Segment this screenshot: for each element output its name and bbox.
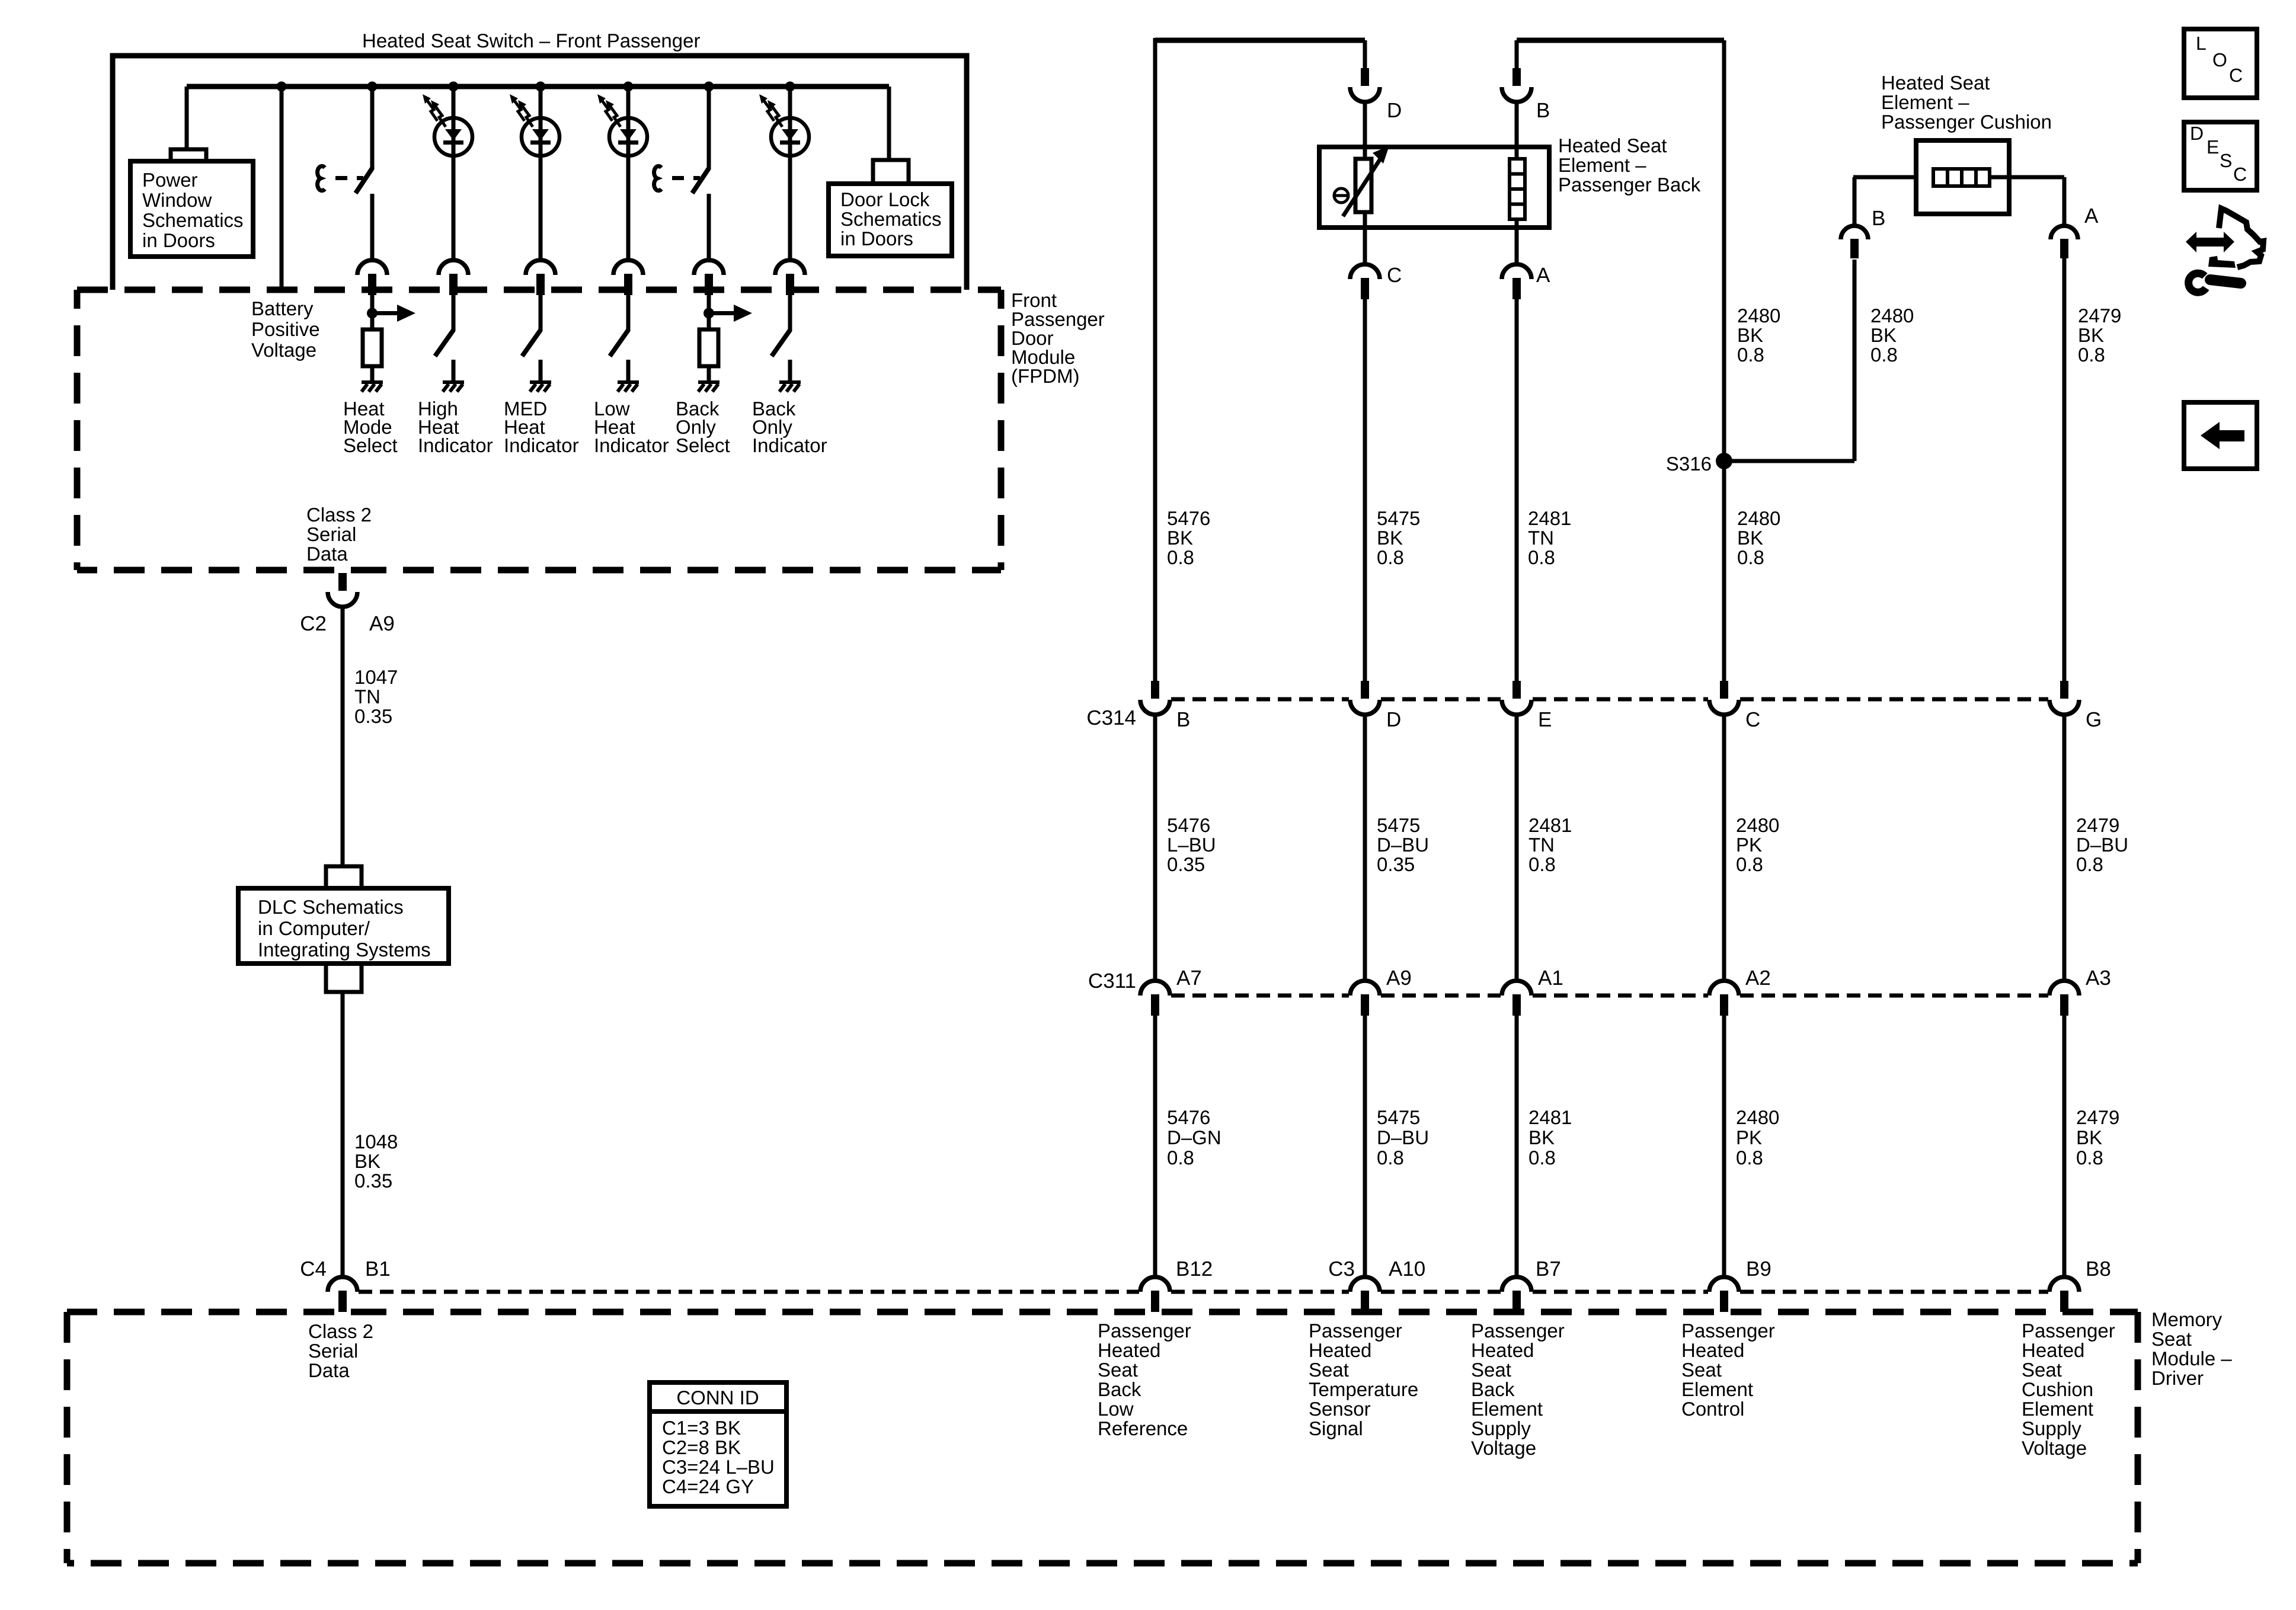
svg-text:Heated: Heated xyxy=(1309,1339,1371,1361)
svg-text:0.8: 0.8 xyxy=(1528,853,1556,875)
svg-text:0.35: 0.35 xyxy=(354,705,392,727)
svg-text:Indicator: Indicator xyxy=(504,434,579,456)
svg-text:Class 2: Class 2 xyxy=(306,504,372,526)
svg-text:D–BU: D–BU xyxy=(2076,834,2128,856)
svg-text:Schematics: Schematics xyxy=(840,208,942,230)
svg-text:2480: 2480 xyxy=(1737,507,1780,529)
svg-text:PK: PK xyxy=(1736,1126,1762,1148)
svg-text:0.8: 0.8 xyxy=(1528,546,1555,568)
svg-text:Seat: Seat xyxy=(2151,1328,2192,1350)
svg-text:A: A xyxy=(1536,264,1550,287)
svg-text:Passenger: Passenger xyxy=(1098,1320,1191,1342)
svg-text:A9: A9 xyxy=(369,612,395,635)
svg-text:BK: BK xyxy=(354,1150,380,1172)
svg-text:B7: B7 xyxy=(1536,1257,1561,1281)
svg-text:BK: BK xyxy=(1870,324,1897,346)
svg-text:0.35: 0.35 xyxy=(354,1170,392,1192)
svg-text:0.35: 0.35 xyxy=(1377,853,1415,875)
svg-text:C3: C3 xyxy=(1328,1257,1355,1281)
svg-text:B8: B8 xyxy=(2086,1257,2111,1281)
svg-text:Passenger: Passenger xyxy=(2022,1320,2115,1342)
svg-text:Cushion: Cushion xyxy=(2022,1378,2093,1400)
svg-text:Window: Window xyxy=(142,189,212,211)
svg-text:TN: TN xyxy=(1528,834,1555,856)
svg-text:C: C xyxy=(2233,164,2247,185)
svg-text:A3: A3 xyxy=(2086,966,2111,990)
svg-text:5476: 5476 xyxy=(1167,507,1210,529)
svg-text:2480: 2480 xyxy=(1737,305,1780,327)
svg-text:C3=24 L–BU: C3=24 L–BU xyxy=(662,1456,775,1478)
svg-text:C: C xyxy=(1387,264,1402,287)
svg-text:Data: Data xyxy=(306,543,348,565)
svg-text:1047: 1047 xyxy=(354,666,398,688)
svg-text:Heated: Heated xyxy=(1681,1339,1744,1361)
svg-text:C: C xyxy=(1745,708,1760,731)
svg-text:2481: 2481 xyxy=(1528,1106,1572,1128)
svg-text:Indicator: Indicator xyxy=(594,434,669,456)
svg-text:D–BU: D–BU xyxy=(1377,834,1429,856)
svg-text:2480: 2480 xyxy=(1736,1106,1779,1128)
svg-text:Indicator: Indicator xyxy=(752,434,827,456)
svg-text:Passenger: Passenger xyxy=(1309,1320,1402,1342)
svg-text:O: O xyxy=(2212,49,2227,71)
svg-text:S316: S316 xyxy=(1666,453,1712,475)
svg-text:Select: Select xyxy=(676,434,730,456)
svg-text:A9: A9 xyxy=(1386,966,1412,990)
svg-text:Select: Select xyxy=(343,434,398,456)
svg-text:BK: BK xyxy=(1377,527,1403,549)
svg-text:Heated: Heated xyxy=(1471,1339,1534,1361)
svg-text:Supply: Supply xyxy=(2022,1417,2081,1439)
svg-text:Class 2: Class 2 xyxy=(308,1320,373,1342)
svg-text:BK: BK xyxy=(1737,527,1763,549)
svg-text:DLC Schematics: DLC Schematics xyxy=(258,896,404,918)
svg-text:Heated Seat: Heated Seat xyxy=(1881,72,1990,94)
svg-text:5475: 5475 xyxy=(1377,814,1420,836)
svg-text:Passenger Cushion: Passenger Cushion xyxy=(1881,111,2052,133)
svg-text:BK: BK xyxy=(2076,1126,2102,1148)
svg-text:Driver: Driver xyxy=(2151,1367,2204,1389)
svg-text:Memory: Memory xyxy=(2151,1308,2223,1330)
svg-text:B9: B9 xyxy=(1746,1257,1771,1281)
svg-text:Seat: Seat xyxy=(2022,1359,2062,1381)
svg-text:Heated: Heated xyxy=(2022,1339,2084,1361)
svg-text:Schematics: Schematics xyxy=(142,209,244,231)
svg-text:L: L xyxy=(2196,33,2207,54)
svg-text:Door Lock: Door Lock xyxy=(840,188,930,210)
svg-text:E: E xyxy=(2207,136,2219,158)
svg-text:Seat: Seat xyxy=(1098,1359,1138,1381)
svg-text:2479: 2479 xyxy=(2076,1106,2119,1128)
svg-text:5476: 5476 xyxy=(1167,814,1210,836)
svg-text:0.8: 0.8 xyxy=(1737,546,1764,568)
svg-text:0.8: 0.8 xyxy=(1377,1147,1404,1169)
svg-text:Seat: Seat xyxy=(1471,1359,1511,1381)
svg-text:Passenger: Passenger xyxy=(1471,1320,1565,1342)
svg-text:Serial: Serial xyxy=(308,1340,358,1362)
svg-text:TN: TN xyxy=(354,686,380,708)
svg-text:Power: Power xyxy=(142,169,198,191)
svg-text:D–GN: D–GN xyxy=(1167,1126,1221,1148)
svg-text:PK: PK xyxy=(1736,834,1762,856)
svg-text:Element –: Element – xyxy=(1558,154,1646,176)
svg-text:0.8: 0.8 xyxy=(1737,344,1764,366)
svg-text:5475: 5475 xyxy=(1377,507,1420,529)
svg-text:D: D xyxy=(2190,123,2204,144)
svg-text:0.8: 0.8 xyxy=(1377,546,1404,568)
svg-text:S: S xyxy=(2220,150,2232,171)
svg-text:B: B xyxy=(1536,99,1550,122)
svg-text:C4=24 GY: C4=24 GY xyxy=(662,1475,754,1497)
svg-text:Battery: Battery xyxy=(251,297,314,319)
svg-text:Control: Control xyxy=(1681,1398,1744,1420)
svg-text:C2: C2 xyxy=(300,612,327,635)
svg-text:Indicator: Indicator xyxy=(418,434,493,456)
svg-text:Element: Element xyxy=(1471,1398,1543,1420)
svg-text:C2=8 BK: C2=8 BK xyxy=(662,1436,741,1458)
svg-text:Voltage: Voltage xyxy=(251,339,316,361)
svg-text:Data: Data xyxy=(308,1359,350,1381)
svg-text:A1: A1 xyxy=(1538,966,1563,990)
svg-text:0.8: 0.8 xyxy=(1528,1147,1556,1169)
svg-text:0.8: 0.8 xyxy=(2076,1147,2103,1169)
svg-text:Voltage: Voltage xyxy=(2022,1437,2087,1459)
svg-text:0.8: 0.8 xyxy=(1167,546,1194,568)
svg-text:B1: B1 xyxy=(365,1257,391,1281)
svg-text:Module –: Module – xyxy=(2151,1347,2232,1369)
svg-text:0.8: 0.8 xyxy=(1736,853,1763,875)
svg-text:in Doors: in Doors xyxy=(142,229,215,251)
svg-text:Seat: Seat xyxy=(1681,1359,1722,1381)
svg-text:Temperature: Temperature xyxy=(1309,1378,1418,1400)
svg-text:D–BU: D–BU xyxy=(1377,1126,1429,1148)
svg-text:Serial: Serial xyxy=(306,523,356,545)
svg-text:2479: 2479 xyxy=(2076,814,2119,836)
svg-text:Heated Seat: Heated Seat xyxy=(1558,135,1667,156)
svg-text:Reference: Reference xyxy=(1098,1417,1188,1439)
svg-text:2479: 2479 xyxy=(2078,305,2121,327)
svg-text:(FPDM): (FPDM) xyxy=(1011,365,1079,387)
svg-text:A2: A2 xyxy=(1745,966,1771,990)
svg-text:A7: A7 xyxy=(1176,966,1202,990)
svg-text:0.8: 0.8 xyxy=(1736,1147,1763,1169)
svg-text:2480: 2480 xyxy=(1870,305,1914,327)
svg-text:in Doors: in Doors xyxy=(840,228,913,249)
svg-text:D: D xyxy=(1386,708,1401,731)
svg-text:BK: BK xyxy=(1167,527,1193,549)
svg-text:Element: Element xyxy=(1681,1378,1753,1400)
svg-text:0.8: 0.8 xyxy=(1870,344,1898,366)
svg-text:TN: TN xyxy=(1528,527,1554,549)
svg-text:5475: 5475 xyxy=(1377,1106,1420,1128)
svg-text:2481: 2481 xyxy=(1528,507,1571,529)
svg-text:A10: A10 xyxy=(1389,1257,1425,1281)
svg-text:CONN ID: CONN ID xyxy=(676,1387,759,1409)
svg-text:C314: C314 xyxy=(1086,706,1136,729)
svg-text:L–BU: L–BU xyxy=(1167,834,1216,856)
svg-text:B: B xyxy=(1176,708,1190,731)
svg-text:E: E xyxy=(1538,708,1552,731)
svg-text:Voltage: Voltage xyxy=(1471,1437,1536,1459)
svg-text:Passenger: Passenger xyxy=(1681,1320,1775,1342)
svg-text:C311: C311 xyxy=(1088,969,1136,993)
svg-text:C4: C4 xyxy=(300,1257,327,1281)
svg-text:G: G xyxy=(2086,708,2102,731)
svg-text:D: D xyxy=(1387,99,1402,122)
svg-text:Element: Element xyxy=(2022,1398,2093,1420)
svg-text:0.8: 0.8 xyxy=(2076,853,2103,875)
svg-text:Supply: Supply xyxy=(1471,1417,1531,1439)
svg-text:Low: Low xyxy=(1098,1398,1134,1420)
svg-text:B12: B12 xyxy=(1176,1257,1213,1281)
svg-text:1048: 1048 xyxy=(354,1131,398,1153)
svg-text:BK: BK xyxy=(2078,324,2104,346)
svg-text:2480: 2480 xyxy=(1736,814,1779,836)
svg-text:Seat: Seat xyxy=(1309,1359,1349,1381)
svg-text:C: C xyxy=(2229,65,2243,86)
svg-text:5476: 5476 xyxy=(1167,1106,1210,1128)
svg-text:Back: Back xyxy=(1098,1378,1141,1400)
svg-text:0.8: 0.8 xyxy=(2078,344,2105,366)
svg-text:2481: 2481 xyxy=(1528,814,1572,836)
svg-text:Element –: Element – xyxy=(1881,91,1969,113)
svg-text:C1=3 BK: C1=3 BK xyxy=(662,1417,741,1439)
svg-text:Integrating Systems: Integrating Systems xyxy=(258,939,431,961)
svg-text:0.8: 0.8 xyxy=(1167,1147,1194,1169)
svg-text:Back: Back xyxy=(1471,1378,1515,1400)
svg-text:Sensor: Sensor xyxy=(1309,1398,1371,1420)
svg-text:Heated: Heated xyxy=(1098,1339,1160,1361)
svg-text:Passenger Back: Passenger Back xyxy=(1558,174,1701,196)
svg-text:Positive: Positive xyxy=(251,318,320,340)
svg-text:A: A xyxy=(2084,204,2099,228)
svg-text:BK: BK xyxy=(1528,1126,1555,1148)
svg-text:B: B xyxy=(1872,207,1885,230)
svg-text:BK: BK xyxy=(1737,324,1763,346)
svg-text:0.35: 0.35 xyxy=(1167,853,1205,875)
svg-text:in Computer/: in Computer/ xyxy=(258,917,370,939)
svg-text:Signal: Signal xyxy=(1309,1417,1363,1439)
svg-text:Heated Seat Switch – Front Pas: Heated Seat Switch – Front Passenger xyxy=(362,30,700,52)
